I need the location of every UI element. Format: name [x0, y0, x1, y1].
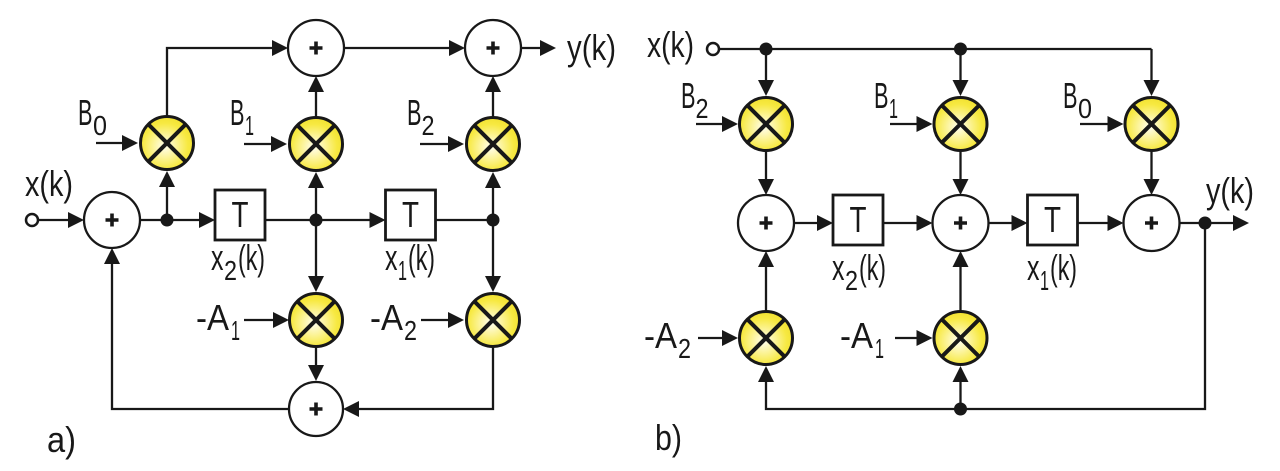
svg-text:-A: -A [644, 315, 677, 356]
wire MB2b down to adder S1b [758, 151, 774, 195]
label B0 b [1063, 75, 1092, 124]
node N2 a [310, 214, 323, 227]
wire node N3 down to MA2 [485, 220, 501, 292]
svg-text:2: 2 [224, 255, 237, 286]
svg-text:T: T [402, 194, 419, 235]
coefficient arrow into MB2b [696, 116, 738, 132]
wire MB0b down to adder S3b [1144, 151, 1160, 195]
wire MA1b up to adder S2b [953, 251, 969, 311]
svg-text:2: 2 [404, 315, 417, 346]
wire adder S1 to adder S2 a [344, 40, 465, 56]
delay block T2 a [386, 190, 436, 240]
input terminal circle b [707, 43, 719, 55]
wire adder SA1 to delay T1 a [140, 212, 215, 228]
svg-text:y(k): y(k) [1206, 170, 1254, 211]
label x1(k) b [1027, 247, 1077, 296]
delay block T1b [833, 195, 883, 245]
input terminal circle a [26, 214, 38, 226]
label B1 b [874, 75, 898, 124]
adder S1 (top first) a [288, 20, 344, 76]
svg-text:x: x [211, 237, 224, 278]
svg-text:2: 2 [696, 93, 709, 124]
label -A1 b [840, 315, 884, 364]
label B0 a [78, 92, 107, 141]
multiplier MA2 a [467, 294, 520, 347]
node N3 a [487, 214, 500, 227]
multiplier MB1 a [290, 118, 343, 171]
arrowhead into MA2b bottom [758, 366, 774, 382]
node NT2 b [954, 43, 967, 56]
output wire y(k) a [521, 40, 556, 56]
wire top corner down to MB0b [1144, 49, 1160, 96]
adder S1b [738, 195, 794, 251]
svg-text:x(k): x(k) [647, 24, 694, 65]
adder S3 (bottom) a [289, 382, 343, 436]
svg-text:0: 0 [1078, 93, 1092, 124]
wire MB1 up to adder S1 a [308, 76, 324, 117]
label x2(k) b [832, 247, 886, 296]
svg-text:b): b) [655, 417, 682, 458]
svg-text:-A: -A [840, 315, 873, 356]
wire node N3 up to MB2 [485, 172, 501, 220]
svg-text:2: 2 [422, 110, 435, 141]
svg-text:x: x [385, 237, 398, 278]
wire T1 to delay T2 a [265, 212, 386, 228]
svg-text:-A: -A [196, 297, 229, 338]
multiplier MA2b [740, 312, 793, 365]
node NFB b [954, 403, 967, 416]
wire MB1b down to adder S2b [953, 151, 969, 195]
coefficient arrow into MB0b [1080, 116, 1124, 132]
svg-text:1: 1 [1040, 265, 1049, 296]
node NT1 b [760, 43, 773, 56]
coefficient arrow into MA2 a [421, 312, 464, 328]
svg-text:(k): (k) [408, 237, 435, 278]
wire MB2 up to adder S2 a [485, 76, 501, 117]
svg-text:(k): (k) [238, 237, 265, 278]
coefficient arrow into MB0 a [96, 135, 138, 151]
label B1 a [230, 92, 254, 141]
coefficient arrow into MB2 a [420, 136, 464, 152]
wire input to adder SA1 [38, 212, 85, 228]
svg-text:x: x [1027, 247, 1040, 288]
label x1(k) a [385, 237, 435, 286]
arrowhead into adder S3 right a [343, 401, 359, 417]
svg-text:a): a) [47, 419, 76, 460]
delay block T1 a [215, 190, 265, 240]
wire MA2 down and left into adder S3 a [359, 347, 493, 409]
top distribution wire b [719, 48, 1152, 50]
wire node N1 up to multiplier B0 [159, 171, 175, 220]
wire NT2 down to MB1b [953, 49, 969, 96]
label -A2 a [370, 297, 417, 346]
svg-text:T: T [232, 194, 249, 235]
wire T2 to node N3 a [436, 219, 494, 221]
adder S3b [1124, 195, 1180, 251]
feedback wire right side down and along bottom b [766, 223, 1205, 409]
svg-text:2: 2 [845, 265, 858, 296]
coefficient arrow into MA1b [895, 330, 933, 346]
label B2 b [681, 75, 709, 124]
multiplier MB0b [1125, 98, 1178, 151]
adder S2b [933, 195, 989, 251]
svg-text:B: B [681, 75, 696, 116]
svg-text:2: 2 [678, 333, 691, 364]
multiplier MB2b [740, 98, 793, 151]
wire MA2b up to adder S1b [758, 251, 774, 311]
coefficient arrow into MB1 a [244, 136, 287, 152]
svg-text:T: T [1044, 199, 1061, 240]
label -A1 a [196, 297, 240, 346]
arrowhead into adder SA1 bottom a [104, 248, 120, 264]
wire node N2 up to MB1 [308, 172, 324, 220]
node N1 a [161, 214, 174, 227]
multiplier MA1b [934, 312, 987, 365]
svg-text:x: x [832, 247, 845, 288]
adder S2 (top second) a [465, 20, 521, 76]
wire MB0 up and right to adder S1 a [167, 48, 272, 117]
svg-text:B: B [230, 92, 245, 133]
wire T2b to adder S3b [1078, 215, 1124, 231]
multiplier MA1 a [290, 294, 343, 347]
multiplier MB0 a [141, 117, 194, 170]
svg-text:x(k): x(k) [25, 163, 73, 204]
label x2(k) a [211, 237, 265, 286]
adder SA1 (input summer) a [84, 192, 140, 248]
svg-text:1: 1 [245, 110, 254, 141]
label B2 a [407, 92, 435, 141]
svg-text:B: B [874, 75, 889, 116]
coefficient arrow into MB1b [890, 116, 933, 132]
svg-text:B: B [407, 92, 422, 133]
svg-text:-A: -A [370, 297, 403, 338]
svg-text:1: 1 [231, 315, 240, 346]
svg-text:B: B [1063, 75, 1078, 116]
arrowhead into adder S1 a [272, 40, 288, 56]
svg-text:T: T [850, 199, 867, 240]
label -A2 b [644, 315, 691, 364]
svg-text:1: 1 [875, 333, 884, 364]
svg-text:(k): (k) [1050, 247, 1077, 288]
delay block T2b [1028, 195, 1078, 245]
node NOUT b [1199, 217, 1212, 230]
multiplier MB2 a [467, 118, 520, 171]
svg-text:(k): (k) [859, 247, 886, 288]
svg-text:1: 1 [889, 93, 898, 124]
coefficient arrow into MA2b [698, 330, 738, 346]
feedback wire S3 to SA1 a [112, 264, 289, 409]
multiplier MB1b [934, 98, 987, 151]
svg-text:1: 1 [398, 255, 407, 286]
wire S1b to delay T1b [794, 215, 833, 231]
wire T1b to adder S2b [883, 215, 933, 231]
svg-text:B: B [78, 92, 93, 133]
wire NFB up to MA1b [953, 366, 969, 409]
coefficient arrow into MA1 a [244, 312, 289, 328]
wire node N2 down to MA1 [308, 220, 324, 292]
wire NT1 down to MB2b [758, 49, 774, 96]
svg-text:0: 0 [93, 110, 107, 141]
svg-text:y(k): y(k) [567, 27, 616, 68]
wire MA1 down to adder S3 a [308, 347, 324, 381]
output wire y(k) b [1180, 215, 1250, 231]
wire S2b to delay T2b [989, 215, 1028, 231]
